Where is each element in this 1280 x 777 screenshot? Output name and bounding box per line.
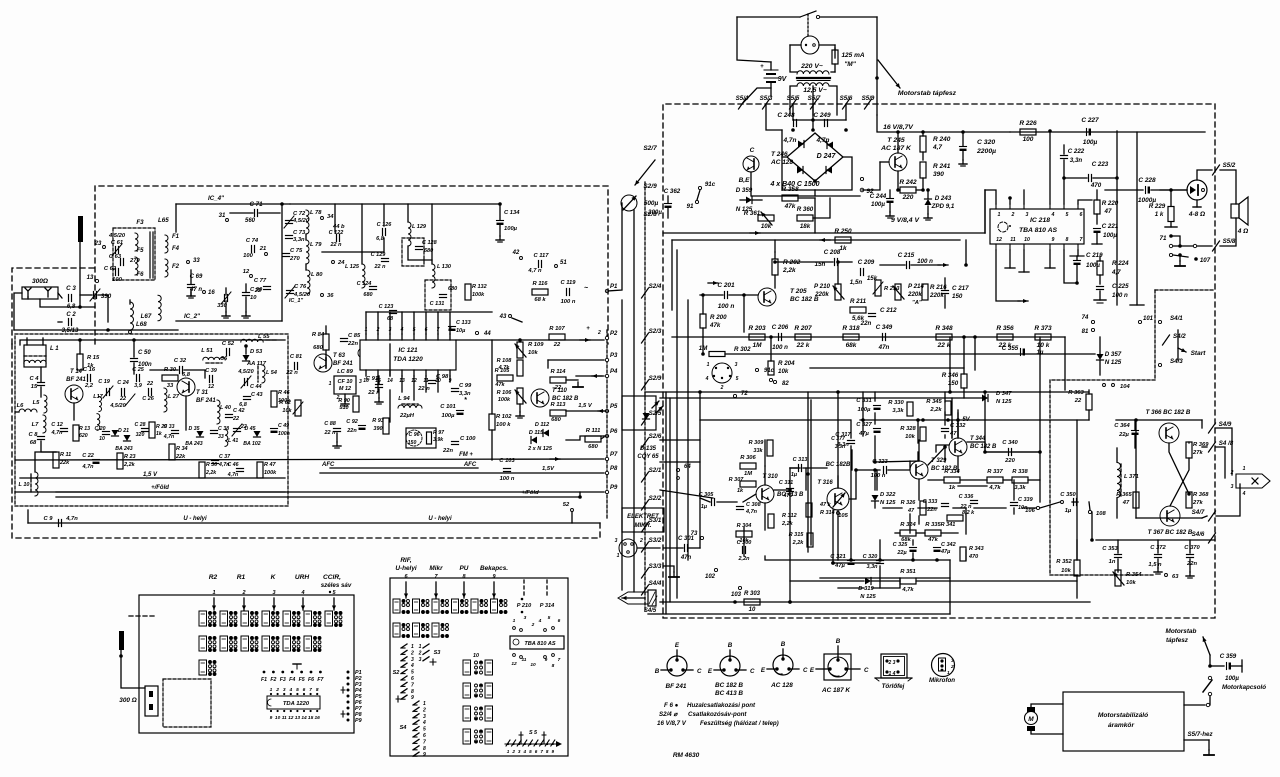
- svg-text:8,2 k: 8,2 k: [962, 510, 975, 516]
- svg-text:8: 8: [423, 746, 426, 752]
- svg-text:S4/9: S4/9: [1219, 421, 1232, 428]
- svg-text:500µ: 500µ: [644, 200, 659, 207]
- svg-text:6,8: 6,8: [239, 402, 248, 408]
- capacitor C81: [294, 363, 296, 370]
- svg-text:C 4: C 4: [29, 376, 39, 382]
- contact 34 36: [321, 217, 324, 220]
- svg-text:T 367 BC 182 B: T 367 BC 182 B: [1148, 529, 1193, 536]
- svg-text:22n: 22n: [346, 428, 357, 434]
- svg-text:1k: 1k: [737, 488, 744, 494]
- svg-text:BC 413 B: BC 413 B: [715, 690, 743, 697]
- svg-text:100µ: 100µ: [441, 413, 455, 419]
- resistor R34: [169, 444, 175, 460]
- svg-text:S4/5: S4/5: [644, 608, 657, 614]
- svg-text:C 223: C 223: [1092, 161, 1109, 168]
- svg-text:2: 2: [275, 687, 279, 693]
- contact 24: [332, 261, 335, 264]
- svg-text:R 345: R 345: [926, 399, 942, 405]
- svg-text:C 353: C 353: [1102, 546, 1118, 552]
- svg-text:390: 390: [933, 171, 944, 178]
- wires to bridge: [766, 104, 782, 130]
- svg-text:2: 2: [410, 650, 414, 656]
- svg-text:1n: 1n: [1109, 559, 1116, 565]
- svg-text:560: 560: [245, 218, 256, 224]
- svg-text:L 51: L 51: [201, 348, 213, 354]
- svg-text:U - helyi: U - helyi: [428, 516, 452, 522]
- svg-text:F4: F4: [289, 677, 295, 683]
- capacitor C25: [136, 375, 138, 382]
- resistor R229: [1168, 207, 1174, 222]
- resistor R341: [947, 515, 963, 521]
- svg-text:22µH: 22µH: [399, 413, 415, 419]
- S4/1 S4/2 S4/3 start switch: [1158, 320, 1161, 323]
- svg-text:22: 22: [146, 381, 153, 387]
- svg-text:52: 52: [563, 502, 570, 508]
- capacitor C209: [860, 269, 862, 276]
- svg-text:150: 150: [408, 440, 417, 446]
- svg-text:C 39: C 39: [205, 368, 218, 374]
- capacitor C12: [61, 428, 68, 430]
- diode D319: [865, 578, 871, 585]
- svg-text:C 101: C 101: [440, 404, 455, 410]
- svg-text:3,3n: 3,3n: [835, 444, 845, 450]
- wire bus P2 line: [456, 339, 604, 341]
- svg-text:11: 11: [1010, 237, 1015, 243]
- svg-text:1,5 V: 1,5 V: [578, 403, 593, 409]
- svg-text:C 90: C 90: [250, 287, 263, 293]
- resistor R111 wire: [601, 437, 604, 439]
- svg-text:15: 15: [31, 384, 38, 390]
- svg-text:R 368: R 368: [1193, 492, 1209, 498]
- wire recorder net h4: [928, 479, 944, 481]
- svg-text:22µ: 22µ: [1118, 432, 1129, 438]
- wire bias double vertical: [807, 392, 809, 552]
- wire recorder net h1: [700, 419, 850, 421]
- svg-text:C 100: C 100: [460, 436, 476, 442]
- svg-text:+/Föld: +/Föld: [151, 485, 169, 491]
- wire x863 vertical: [862, 392, 864, 436]
- svg-text:B: B: [728, 642, 733, 649]
- coil L40: [217, 400, 220, 424]
- svg-text:R 15: R 15: [87, 355, 100, 361]
- svg-text:R 97: R 97: [433, 430, 445, 436]
- resistor R250: [835, 237, 851, 243]
- wire right verticals: [633, 210, 635, 592]
- capacitor C8: [38, 436, 45, 438]
- svg-text:1: 1: [329, 381, 332, 387]
- svg-text:270: 270: [289, 256, 300, 262]
- svg-text:D 112: D 112: [535, 422, 549, 428]
- svg-text:150: 150: [952, 293, 963, 300]
- capacitor C325: [910, 547, 917, 549]
- svg-text:S2/7: S2/7: [643, 145, 657, 152]
- capacitor C103: [504, 468, 511, 470]
- resistor R360: [797, 215, 813, 221]
- svg-text:47: 47: [949, 431, 957, 437]
- wire recorder bottom long: [790, 601, 1090, 603]
- svg-text:100 n: 100 n: [718, 303, 735, 310]
- capacitor C38: [211, 430, 218, 432]
- svg-text:C 350: C 350: [1060, 492, 1076, 498]
- svg-text:R 358: R 358: [781, 186, 799, 193]
- svg-text:F6: F6: [136, 272, 144, 278]
- svg-text:T 245: T 245: [887, 137, 905, 144]
- svg-text:S2: S2: [393, 670, 401, 676]
- svg-text:C 308: C 308: [746, 502, 762, 508]
- svg-text:220 V~: 220 V~: [800, 63, 823, 70]
- capacitor C52: [226, 349, 228, 356]
- contacts 91c 91: [698, 186, 701, 189]
- svg-text:L 40: L 40: [220, 405, 231, 411]
- pinout BC182B: [720, 656, 740, 676]
- wire antenna to tuner: [40, 299, 95, 307]
- capacitor C308: [737, 506, 744, 508]
- capacitor C4: [38, 382, 45, 384]
- capacitor C77: [264, 286, 271, 288]
- svg-text:CF 10: CF 10: [338, 379, 353, 385]
- capacitor C313: [798, 465, 800, 472]
- svg-text:1 k: 1 k: [1155, 211, 1164, 218]
- svg-text:10: 10: [275, 715, 281, 721]
- svg-text:C 333: C 333: [923, 499, 938, 505]
- capacitor C131: [440, 294, 447, 296]
- svg-text:C 215: C 215: [898, 252, 915, 259]
- coil L51: [203, 357, 225, 360]
- svg-text:22 k: 22 k: [796, 342, 810, 349]
- capacitor C74: [251, 246, 253, 253]
- svg-text:BA 243: BA 243: [115, 446, 133, 452]
- capacitor C350: [1073, 499, 1075, 506]
- svg-text:F2: F2: [270, 677, 276, 683]
- svg-text:3,9: 3,9: [134, 383, 143, 389]
- svg-text:L 94: L 94: [398, 396, 410, 402]
- svg-text:3: 3: [283, 687, 286, 693]
- svg-text:R 111: R 111: [586, 428, 601, 434]
- contact 104: [1103, 384, 1106, 387]
- svg-text:R 338: R 338: [1012, 469, 1028, 475]
- svg-text:R 356: R 356: [996, 325, 1014, 332]
- svg-text:47k: 47k: [709, 322, 721, 329]
- svg-text:3,3k: 3,3k: [1014, 485, 1026, 491]
- svg-text:R 242: R 242: [899, 179, 917, 186]
- coil L129: [408, 222, 411, 246]
- resistor R369: [1186, 442, 1192, 458]
- svg-text:D 135: D 135: [640, 446, 657, 452]
- svg-text:BF 241: BF 241: [666, 683, 687, 690]
- svg-text:C 122: C 122: [329, 230, 344, 236]
- svg-text:Mikr: Mikr: [429, 565, 443, 572]
- board2 pin row 1: [393, 599, 400, 613]
- capacitor C123: [390, 310, 397, 312]
- svg-text:C 46: C 46: [228, 462, 239, 468]
- svg-text:9: 9: [1052, 237, 1055, 243]
- coil L6: [19, 409, 37, 412]
- svg-text:C 75: C 75: [290, 248, 303, 254]
- diode D243 ZPD9.1: [925, 199, 932, 205]
- contact 64: [676, 468, 679, 471]
- S4 contacts output: [1209, 423, 1216, 433]
- svg-text:S4/6: S4/6: [1192, 531, 1205, 538]
- svg-text:63: 63: [1172, 574, 1179, 580]
- svg-text:C 99: C 99: [459, 383, 472, 389]
- svg-text:2: 2: [639, 538, 643, 544]
- svg-text:4,5/20: 4,5/20: [108, 233, 126, 239]
- wire S5/7: [1184, 739, 1209, 741]
- S5/2 contact: [1197, 170, 1212, 180]
- pot P214: [895, 284, 901, 300]
- svg-text:TDA 1220: TDA 1220: [283, 701, 310, 707]
- svg-text:23: 23: [94, 241, 102, 247]
- wire P4 line: [576, 375, 604, 377]
- svg-text:Motorstab: Motorstab: [1166, 628, 1197, 635]
- IC 121 TDA1220 box: [360, 340, 456, 370]
- resistor R335: [925, 530, 941, 536]
- resistor R363: [1086, 394, 1092, 410]
- svg-text:S4/2: S4/2: [1173, 333, 1186, 340]
- resistor R15: [77, 354, 83, 370]
- capacitor C26: [148, 389, 150, 396]
- capacitor C222: [1061, 155, 1068, 157]
- svg-text:C 212: C 212: [880, 307, 897, 314]
- svg-text:D 322: D 322: [880, 492, 896, 498]
- contacts 74 81 101: [1091, 320, 1094, 323]
- svg-text:IC_2": IC_2": [184, 313, 200, 320]
- contact 23: [103, 246, 106, 249]
- svg-text:2,2k: 2,2k: [929, 407, 942, 413]
- capacitor C88: [334, 428, 341, 430]
- wire secondary loop: [790, 86, 797, 115]
- svg-text:B: B: [836, 638, 841, 645]
- svg-text:33k: 33k: [753, 448, 763, 454]
- svg-text:36: 36: [327, 293, 334, 299]
- svg-text:24: 24: [337, 260, 345, 266]
- wire recorder vert x919: [918, 479, 920, 500]
- svg-text:7: 7: [423, 739, 426, 745]
- junction dots recorder: [806, 472, 810, 476]
- wire R351 D319 bus: [790, 580, 864, 582]
- svg-text:C 32: C 32: [174, 358, 187, 364]
- contact 12: [250, 275, 253, 278]
- svg-text:D 53: D 53: [250, 349, 263, 355]
- svg-text:C 91: C 91: [366, 376, 378, 382]
- resistor R361: [758, 215, 774, 221]
- coil L54: [262, 365, 265, 383]
- trimmer C44: [244, 379, 246, 386]
- capacitor C101: [457, 410, 464, 412]
- svg-text:C 88: C 88: [324, 421, 337, 427]
- svg-text:S2/1: S2/1: [649, 467, 662, 474]
- wire recorder net h6: [895, 532, 900, 534]
- svg-text:P5: P5: [610, 404, 618, 410]
- svg-text:10k: 10k: [905, 434, 915, 440]
- svg-text:L 27: L 27: [168, 394, 180, 400]
- svg-text:AA 117: AA 117: [246, 361, 267, 367]
- svg-text:+/Föld: +/Föld: [521, 490, 539, 496]
- capacitor C24: [121, 389, 123, 396]
- svg-text:15k: 15k: [867, 275, 878, 282]
- pinout AC128: [773, 655, 793, 675]
- svg-text:47: 47: [1104, 208, 1112, 215]
- oscillator contact 31: [226, 219, 229, 222]
- svg-text:4,7 n: 4,7 n: [527, 268, 542, 274]
- svg-text:AFC: AFC: [463, 462, 477, 468]
- resistor R358: [782, 195, 798, 201]
- svg-text:102: 102: [705, 574, 716, 580]
- svg-text:P1: P1: [610, 284, 618, 290]
- board1 dashes left: [129, 615, 154, 617]
- diode D357: [1097, 354, 1104, 360]
- svg-text:Bekapcs.: Bekapcs.: [480, 565, 508, 572]
- svg-text:C 85: C 85: [348, 333, 361, 339]
- wire bus 233: [663, 232, 985, 234]
- svg-text:R 330: R 330: [888, 400, 904, 406]
- wire main 16V rail right: [1010, 131, 1205, 133]
- wire fold rail: [56, 491, 285, 493]
- diode D45: [254, 431, 261, 437]
- svg-text:104: 104: [1120, 384, 1130, 390]
- svg-text:P7: P7: [610, 452, 618, 458]
- mains plug: [801, 36, 819, 54]
- svg-text:T 246: T 246: [771, 151, 788, 158]
- resistor R200: [700, 314, 706, 328]
- svg-text:8: 8: [552, 663, 555, 669]
- svg-text:C 249: C 249: [813, 112, 831, 119]
- resistor R318: [843, 334, 859, 340]
- svg-text:R 360: R 360: [797, 206, 814, 213]
- svg-text:C 77: C 77: [254, 278, 267, 284]
- contact 16: [203, 291, 206, 294]
- svg-text:R 113: R 113: [550, 402, 566, 408]
- svg-text:9 V/8,4 V: 9 V/8,4 V: [891, 217, 920, 224]
- svg-text:2200µ: 2200µ: [976, 148, 996, 155]
- wire bottom bus output: [1096, 539, 1215, 541]
- resistor R23: [117, 453, 123, 469]
- mic connector: [619, 539, 637, 557]
- svg-text:L 41: L 41: [228, 438, 238, 444]
- svg-text:4: 4: [523, 749, 527, 754]
- svg-text:100µ: 100µ: [1103, 232, 1117, 239]
- svg-text:C 206: C 206: [772, 324, 789, 331]
- wire 16V rail: [877, 115, 1010, 132]
- svg-text:R 108: R 108: [497, 358, 513, 364]
- svg-text:C 25: C 25: [132, 367, 145, 373]
- svg-text:R 211: R 211: [850, 298, 867, 305]
- svg-text:220: 220: [902, 194, 914, 201]
- svg-text:3,3k: 3,3k: [892, 408, 904, 414]
- capacitor C372: [1155, 554, 1162, 556]
- svg-text:C 44: C 44: [250, 384, 262, 390]
- svg-text:3: 3: [735, 362, 738, 368]
- svg-text:47µ: 47µ: [858, 431, 869, 437]
- svg-text:R 302: R 302: [734, 346, 751, 353]
- svg-text:100k: 100k: [264, 470, 277, 476]
- svg-text:10: 10: [1024, 237, 1030, 243]
- contact 44: [475, 331, 478, 334]
- resistor R132: [465, 284, 471, 300]
- transistor T344: [949, 438, 967, 456]
- svg-text:R 307: R 307: [729, 477, 745, 483]
- svg-text:470: 470: [1090, 182, 1102, 189]
- board2 pin row 1b: [521, 598, 524, 601]
- coil L27: [164, 388, 167, 412]
- wire IC_2: [176, 320, 282, 322]
- svg-text:8: 8: [411, 689, 414, 695]
- antenna input 300ohm: [22, 287, 58, 299]
- svg-text:2,2n: 2,2n: [737, 556, 750, 562]
- wire preamp bus 337: [672, 336, 1065, 338]
- svg-text:C 74: C 74: [246, 238, 259, 244]
- svg-text:3: 3: [411, 657, 414, 663]
- wire recorder vert x838: [837, 392, 839, 488]
- svg-text:1: 1: [707, 362, 710, 368]
- wire right drop: [876, 17, 878, 115]
- svg-text:10: 10: [749, 607, 756, 613]
- svg-text:4,5/20: 4,5/20: [109, 403, 125, 409]
- resistor R345: [945, 401, 951, 415]
- motor switch: [1208, 676, 1211, 679]
- board2 S4 jumpers: [413, 701, 419, 705]
- svg-text:100 n: 100 n: [1112, 292, 1128, 299]
- resistor R328: [920, 427, 926, 441]
- capacitor C73: [286, 235, 293, 237]
- resistor R226: [1020, 129, 1036, 135]
- svg-text:C 43: C 43: [251, 392, 263, 398]
- svg-text:9: 9: [545, 657, 548, 663]
- svg-text:1: 1: [270, 687, 273, 693]
- svg-text:R 109: R 109: [528, 342, 544, 348]
- svg-text:D 319: D 319: [858, 586, 874, 592]
- resistor R334: [944, 477, 960, 483]
- svg-text:S4: S4: [400, 725, 408, 731]
- svg-text:AFC: AFC: [321, 462, 335, 468]
- svg-text:L 371: L 371: [1124, 474, 1139, 480]
- svg-text:MIKR.: MIKR.: [635, 523, 652, 529]
- svg-text:3,3n: 3,3n: [1070, 157, 1083, 164]
- board1 antenna rod: [119, 631, 124, 650]
- svg-text:BC 182 B: BC 182 B: [970, 444, 997, 450]
- svg-text:C 26: C 26: [142, 396, 155, 402]
- svg-text:B,E: B,E: [739, 177, 751, 184]
- svg-text:22µ: 22µ: [896, 550, 907, 556]
- transistor T316: [827, 488, 849, 510]
- contact 13: [95, 279, 98, 282]
- svg-text:100 n: 100 n: [871, 473, 886, 479]
- svg-text:10: 10: [473, 653, 479, 659]
- capacitor C217: [942, 290, 949, 292]
- svg-text:16 V/8,7 V: 16 V/8,7 V: [657, 720, 687, 727]
- svg-text:R 229: R 229: [1149, 203, 1166, 210]
- contact S2 52: [571, 509, 574, 512]
- svg-text:R 361: R 361: [744, 210, 761, 217]
- svg-text:12: 12: [208, 384, 214, 390]
- svg-text:C 129: C 129: [371, 252, 387, 258]
- svg-text:42: 42: [512, 250, 520, 256]
- svg-text:3: 3: [272, 590, 275, 596]
- wire P8 AFC line: [320, 472, 604, 474]
- svg-text:91c: 91c: [705, 181, 716, 188]
- capacitor C39: [209, 376, 211, 383]
- svg-text:BF 241: BF 241: [66, 377, 86, 383]
- svg-text:Csatlakozósáv-pont: Csatlakozósáv-pont: [688, 711, 747, 718]
- capacitor C91: [376, 384, 383, 386]
- resistor R343: [960, 547, 966, 561]
- svg-text:S3/2: S3/2: [649, 537, 662, 544]
- svg-text:F1: F1: [261, 677, 267, 683]
- svg-text:L 130: L 130: [437, 264, 451, 270]
- svg-text:100k: 100k: [498, 397, 511, 403]
- svg-text:47k: 47k: [494, 382, 505, 388]
- svg-text:R 204: R 204: [778, 360, 795, 367]
